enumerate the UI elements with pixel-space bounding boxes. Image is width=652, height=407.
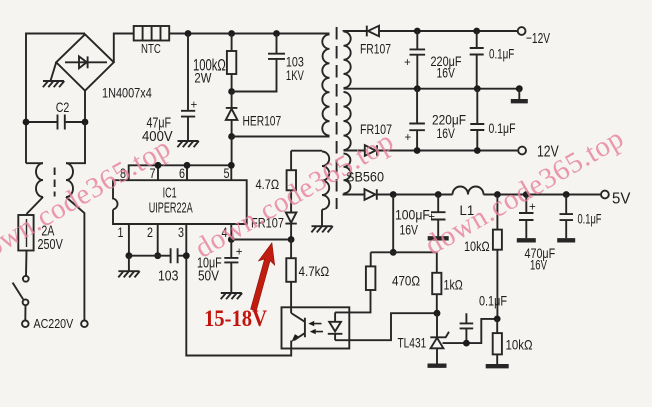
node ref / comp cap (463, 340, 470, 347)
wire primary bottom to drain pins (232, 137, 330, 166)
svg-text:4.7kΩ: 4.7kΩ (299, 263, 330, 279)
capacitor 0.1uF (+12V) (470, 89, 484, 151)
pin 7 stub (157, 165, 159, 180)
svg-text:1KV: 1KV (286, 67, 304, 83)
svg-text:TL431: TL431 (398, 335, 427, 351)
resistor 10k upper divider (496, 195, 498, 230)
node 12V rail / 0.1uF (474, 147, 481, 154)
wire pins 1-2 common (129, 255, 171, 257)
wire secondary bottom tap (344, 194, 365, 195)
wire fuse to switch (25, 251, 28, 276)
svg-text:16V: 16V (437, 125, 456, 141)
svg-text:3: 3 (178, 224, 184, 240)
transformer secondary winding section B (344, 92, 351, 150)
resistor 4.7k to opto collector (290, 240, 292, 259)
optocoupler light arrows (312, 324, 323, 332)
svg-text:1kΩ: 1kΩ (444, 277, 463, 293)
capacitor 0.1uF compensation (460, 313, 474, 343)
ground (bar) under 100uF (428, 236, 449, 240)
optocoupler LED (cathode down) (328, 312, 343, 340)
terminal -12V (518, 27, 526, 35)
wire secondary top tap (344, 30, 367, 33)
svg-text:103: 103 (158, 269, 178, 285)
wire secondary +12 tap (344, 150, 365, 152)
svg-text:HER107: HER107 (243, 113, 282, 129)
svg-text:100μF: 100μF (395, 207, 430, 223)
ground (chassis) under 10uF (221, 293, 242, 299)
node VDD / 4.7k (288, 236, 295, 243)
capacitor 47uF 400V bulk (181, 34, 195, 141)
common-mode choke right winding (66, 163, 73, 197)
pin 3 stub / source line down (186, 224, 291, 356)
transformer secondary winding section C (344, 154, 351, 194)
ground (bar) under 0.1uF (557, 238, 575, 242)
svg-text:0.1μF: 0.1μF (578, 211, 602, 227)
ground (bar) under divider (486, 364, 509, 368)
bridge rectifier D1-D4 1N4007x4 diamond (56, 34, 114, 90)
svg-text:470Ω: 470Ω (392, 273, 420, 289)
terminal 5V (601, 191, 609, 199)
wire LED anode to 470R (335, 290, 370, 312)
ground (chassis) under pin 1 (128, 256, 130, 271)
bridge internal diode symbol (65, 56, 107, 68)
diode FR107 aux (cathode down) (285, 213, 296, 240)
terminal AC220V left (22, 321, 29, 328)
wire choke right bottom to AC terminal (66, 197, 84, 321)
pin 4 stub VDD (230, 224, 232, 240)
node top rail / 47uF (185, 30, 192, 37)
svg-text:+: + (405, 132, 412, 144)
resistor 100k 2W snubber (231, 34, 233, 52)
resistor 4.7R aux (290, 151, 292, 171)
transformer secondary winding section A (344, 32, 351, 88)
wire right AC line down to choke (66, 122, 85, 163)
svg-text:2: 2 (147, 224, 153, 240)
svg-text:UIPER22A: UIPER22A (149, 200, 193, 217)
svg-text:16V: 16V (400, 222, 419, 238)
node 100uF (435, 191, 442, 198)
diode FR107 (-12V, cathode left) (367, 26, 518, 37)
capacitor 220uF 16V (-12V) (410, 31, 426, 89)
resistor 1k TL431 cathode (436, 252, 438, 272)
ground (chassis) under 47uF (177, 141, 198, 147)
diode HER107 clamp (cathode up) (226, 92, 238, 137)
diode FR107 (+12V, cathode right) (365, 145, 519, 156)
node -12V rail / 0.1uF (473, 28, 480, 35)
node HER107 anode / primary bottom (228, 133, 235, 140)
transformer T2 primary winding (322, 34, 329, 135)
svg-text:16V: 16V (530, 257, 547, 273)
op-amp U-IC1 UIPER22A body (113, 180, 247, 224)
wire VDD to FR107 node (231, 239, 291, 241)
resistor 470R LED bias (370, 252, 372, 266)
svg-text:+: + (191, 100, 198, 112)
svg-text:−12V: −12V (526, 31, 550, 47)
pin 1 stub to ground (128, 224, 130, 256)
node C2 right (82, 119, 89, 126)
svg-text:NTC: NTC (141, 42, 161, 56)
wire TL431 ref to divider mid (443, 319, 498, 343)
wire divider supply line (371, 251, 437, 253)
wire choke left bottom to fuse (27, 197, 44, 214)
svg-text:10kΩ: 10kΩ (506, 337, 533, 353)
node top rail / 103 cap (273, 30, 280, 37)
svg-text:50V: 50V (198, 269, 219, 285)
thermistor NTC body (134, 26, 170, 41)
wire drain bus pins 5-8 (129, 165, 232, 180)
wire LED cathode to TL431 cathode (335, 313, 437, 340)
pin 5 node (228, 162, 235, 169)
ground (chassis) at bridge left corner (51, 62, 57, 80)
svg-text:+: + (428, 212, 435, 224)
svg-text:0.1μF: 0.1μF (489, 120, 516, 136)
svg-text:6: 6 (179, 165, 185, 181)
node SB560 cathode / feedback takeoff (390, 191, 397, 198)
annotation red arrow 15-18V (251, 243, 275, 311)
switch S1 pole circle (23, 276, 29, 282)
diode SB560 (5V, cathode right) (365, 189, 453, 200)
wire bridge DC+ right corner up to NTC (114, 34, 134, 63)
node 0.1uF (563, 191, 570, 198)
capacitor 0.1uF (5V) (560, 195, 574, 239)
transformer core (dashed) (336, 27, 338, 209)
shunt regulator TL431 (430, 313, 449, 363)
wire secondary mid tap ground rail (344, 88, 520, 90)
optocoupler U2 body (282, 307, 350, 348)
wire AC top rail from left riser to bridge top corner (26, 34, 85, 164)
transformer auxiliary winding (291, 150, 322, 152)
svg-text:FR107: FR107 (360, 41, 391, 57)
capacitor 220uF 16V (+12V) (409, 89, 425, 151)
svg-text:5: 5 (224, 165, 230, 181)
node top rail / 100k (228, 30, 235, 37)
node -12V rail / 220uF (414, 28, 421, 35)
node gnd rail / caps (414, 85, 421, 92)
node 100k / HER107 / 103 (228, 88, 235, 95)
svg-text:250V: 250V (38, 237, 64, 253)
capacitor 470uF 16V (519, 195, 534, 239)
svg-text:1: 1 (118, 224, 124, 240)
svg-text:C2: C2 (56, 100, 70, 115)
svg-text:1N4007x4: 1N4007x4 (102, 86, 152, 101)
capacitor 100uF 16V (431, 195, 446, 237)
resistor 10k lower divider (496, 319, 498, 333)
common-mode choke core (dashed) (54, 168, 56, 197)
switch S1 throw circle (23, 299, 29, 305)
pin 2 stub (157, 224, 159, 256)
wire L1 to 5V terminal (484, 194, 602, 196)
node 470uF (523, 191, 530, 198)
fuse F1 2A 250V (26, 214, 28, 251)
node TL431 cathode (434, 310, 441, 317)
wire 5V feedback takeoff down (392, 195, 394, 253)
svg-text:15-18V: 15-18V (204, 306, 267, 331)
node C2 left (23, 119, 30, 126)
common-mode choke T1 left winding (26, 162, 43, 164)
switch S1 lever (13, 283, 24, 300)
svg-text:0.1μF: 0.1μF (489, 46, 514, 62)
node 10k divider top (494, 191, 501, 198)
wire switch to AC terminal (24, 305, 26, 320)
ground (chassis) aux winding (311, 226, 332, 232)
ground (bar) TL431 anode (428, 364, 447, 368)
ground (bar) secondary common (518, 89, 520, 100)
capacitor 103 1KV snubber (232, 34, 285, 92)
svg-text:2W: 2W (194, 71, 211, 86)
node divider mid (494, 316, 501, 323)
svg-text:+: + (236, 247, 243, 259)
node 12V rail / 220uF (414, 147, 421, 154)
terminal AC220V right (81, 321, 88, 328)
capacitor 0.1uF (-12V) (470, 31, 484, 89)
optocoupler phototransistor (291, 313, 305, 340)
svg-text:AC220V: AC220V (34, 316, 74, 331)
wire bridge bottom corner down (84, 91, 86, 122)
svg-text:5V: 5V (612, 191, 631, 208)
capacitor C2 across AC lines (26, 115, 85, 130)
pin 6 stub (186, 165, 188, 180)
svg-text:0.1μF: 0.1μF (479, 293, 507, 309)
wire DC+ top rail NTC to transformer primary (169, 33, 329, 35)
ground (bar) under 470uF (517, 238, 536, 242)
capacitor 103 (pin3) (171, 248, 187, 263)
inductor L1 (453, 187, 484, 195)
svg-text:16V: 16V (437, 65, 456, 81)
terminal 12V (518, 147, 526, 155)
svg-text:+: + (404, 57, 411, 69)
capacitor 10uF 50V VDD (224, 240, 238, 293)
